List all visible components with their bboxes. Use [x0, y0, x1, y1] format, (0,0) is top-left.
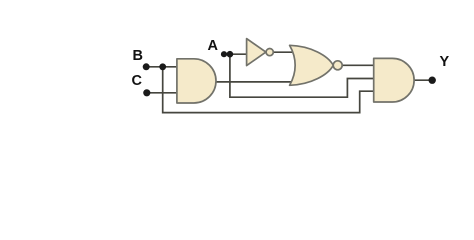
- svg-text:A: A: [208, 38, 219, 54]
- svg-text:B: B: [133, 48, 143, 64]
- svg-text:C: C: [132, 73, 143, 89]
- svg-text:Y: Y: [440, 54, 450, 70]
